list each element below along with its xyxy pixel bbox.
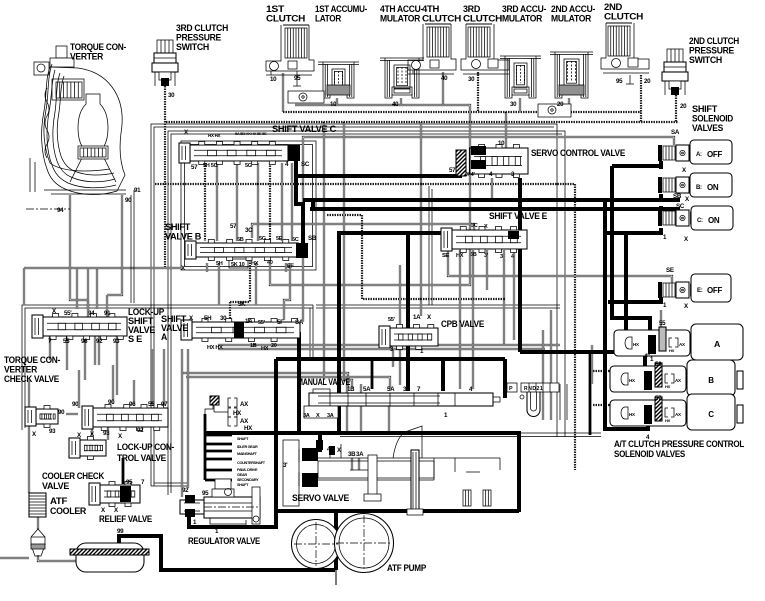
svg-text:HX: HX (251, 261, 259, 267)
wire y105 manifold (295, 105, 470, 112)
spool SHIFT VALVE E (452, 230, 527, 249)
box A OFF (690, 140, 732, 164)
wire 2nd press switch drop (675, 95, 677, 122)
svg-text:TROL VALVE: TROL VALVE (117, 453, 166, 463)
svg-text:AX: AX (675, 412, 681, 417)
wire 3rd press switch drop (164, 86, 166, 268)
wire servo ctl 10 drop (505, 112, 507, 148)
spool SHIFT VALVE C (190, 145, 288, 161)
svg-text:VALVE: VALVE (42, 481, 69, 491)
box E OFF (691, 274, 731, 302)
wire thick SC vertical (296, 155, 303, 246)
wire manual 5A feed (186, 377, 390, 389)
svg-text:4TH: 4TH (422, 4, 439, 14)
svg-text:SC: SC (301, 161, 310, 168)
linear solenoid row C (610, 400, 686, 426)
svg-text:5K 10: 5K 10 (231, 262, 245, 268)
wire valve E 4 drop (513, 250, 515, 340)
svg-text:57: 57 (230, 223, 237, 230)
svg-text:ON: ON (707, 183, 719, 192)
wire thick y352 rowB (520, 352, 645, 366)
svg-text:96: 96 (81, 338, 88, 345)
svg-text:AX: AX (675, 378, 681, 383)
svg-text:SWITCH: SWITCH (176, 42, 209, 52)
svg-text:3B: 3B (470, 252, 477, 258)
svg-text:95: 95 (294, 75, 301, 82)
wire 3B3A inside servo (351, 458, 353, 470)
wire vB extra drops (206, 263, 208, 272)
svg-text:4": 4" (644, 353, 650, 360)
svg-text:OFF: OFF (707, 150, 723, 159)
svg-text:55': 55' (388, 317, 396, 323)
wire thick x626 (624, 233, 628, 352)
svg-text:55': 55' (258, 320, 266, 326)
solenoid valve SB (658, 177, 662, 193)
svg-text:SHIFT: SHIFT (692, 104, 718, 114)
svg-text:4": 4" (327, 446, 333, 453)
svg-text:MULATOR: MULATOR (551, 14, 592, 24)
detent P (507, 383, 517, 392)
pressure switch 2ND (667, 49, 683, 62)
svg-text:97: 97 (161, 401, 168, 408)
regulator valve (204, 497, 260, 518)
svg-text:55: 55 (148, 401, 155, 408)
wire thick jog y209-y204 (311, 202, 315, 209)
spool SHIFT VALVE A (192, 322, 300, 338)
svg-text:91: 91 (134, 187, 141, 194)
svg-text:SHAFT: SHAFT (237, 483, 249, 487)
accumulator 4TH (380, 57, 424, 59)
wire dashdot centerline (26, 208, 70, 210)
svg-text:HX: HX (456, 253, 464, 259)
svg-text:HX HX: HX HX (207, 345, 223, 351)
svg-text:A:: A: (696, 152, 702, 158)
wire 94/91 into lockup (87, 300, 89, 317)
spool SERVO CONTROL VALVE (470, 148, 528, 174)
wire 5H drop (218, 263, 220, 305)
wire thick pan 99 route (119, 536, 335, 570)
wire 2nd accum drop (568, 98, 570, 107)
svg-text:5K: 5K (238, 301, 246, 308)
wire thick y359 (276, 357, 505, 361)
svg-text:HX: HX (633, 342, 639, 347)
node black land valve A (234, 322, 244, 338)
wire hatch 5K line (249, 255, 251, 302)
svg-text:HX: HX (629, 412, 635, 417)
check valve assy near 2nd accum (538, 104, 571, 117)
check valve assy near 1st (288, 91, 324, 103)
spool CPB VALVE (390, 328, 438, 346)
spool SHIFT VALVE B (196, 243, 298, 257)
svg-text:1B: 1B (347, 386, 355, 393)
svg-text:30: 30 (220, 315, 227, 322)
svg-text:95: 95 (616, 78, 623, 85)
svg-text:94: 94 (88, 310, 95, 317)
svg-text:CLUTCH: CLUTCH (463, 14, 502, 24)
svg-text:90: 90 (72, 401, 79, 408)
svg-text:REGULATOR VALVE: REGULATOR VALVE (188, 536, 260, 546)
svg-text:X: X (484, 224, 488, 230)
wire gray pair bottom y433 (340, 432, 601, 434)
wire 2nd clutch 20 drop (640, 75, 642, 122)
wire frame-E around valve E (428, 186, 430, 305)
svg-text:30: 30 (510, 101, 517, 108)
wire frame-A bottom (151, 485, 189, 487)
node hatched plug servo ctl (456, 150, 466, 176)
svg-text:SOLENOID: SOLENOID (692, 114, 734, 124)
wire thick x520 servo3 (518, 178, 522, 352)
svg-text:HX: HX (629, 378, 635, 383)
svg-text:SB: SB (673, 193, 682, 200)
svg-text:3B: 3B (348, 451, 356, 458)
svg-text:4TH ACCU-: 4TH ACCU- (380, 4, 423, 14)
svg-text:40: 40 (267, 260, 273, 266)
svg-text:S E: S E (128, 334, 142, 344)
svg-text:96: 96 (129, 401, 136, 408)
svg-text:X 4': X 4' (466, 172, 475, 178)
svg-text:92: 92 (137, 427, 144, 434)
svg-text:94: 94 (57, 207, 64, 214)
svg-text:3A: 3A (327, 413, 334, 419)
svg-text:C:: C: (697, 218, 703, 224)
svg-text:HX HX: HX HX (208, 133, 221, 138)
wire thick SC-servo y176 (294, 174, 462, 178)
wire frame-D (22, 305, 313, 430)
svg-text:MULATOR: MULATOR (380, 14, 421, 24)
svg-text:2ND CLUTCH: 2ND CLUTCH (689, 36, 739, 46)
svg-text:SB: SB (308, 235, 317, 242)
wire screened frame right x575 (574, 184, 576, 470)
svg-text:10: 10 (330, 101, 337, 108)
svg-text:PRESSURE: PRESSURE (176, 33, 221, 43)
svg-text:OFF: OFF (707, 286, 723, 295)
svg-text:SOLENOID VALVES: SOLENOID VALVES (614, 449, 685, 459)
wire x131 frame (130, 195, 132, 303)
svg-text:20: 20 (557, 101, 564, 108)
wire pair y305 (316, 304, 560, 306)
svg-text:CLUTCH: CLUTCH (266, 14, 305, 24)
wire left h y268 (24, 267, 181, 269)
solenoid valve SE (658, 282, 662, 298)
svg-text:91: 91 (104, 310, 111, 317)
wire screened frame top y184 (155, 183, 575, 185)
wire regulator feeds (181, 349, 183, 497)
node SB black land (296, 243, 308, 258)
svg-text:1ST: 1ST (266, 4, 285, 14)
svg-text:CHECK VALVE: CHECK VALVE (4, 374, 59, 384)
atf pan (76, 543, 144, 572)
wire spool bundle C-B (216, 163, 218, 241)
wire thick SB bus y200 (303, 198, 680, 202)
svg-text:A/T CLUTCH PRESSURE CONTROL: A/T CLUTCH PRESSURE CONTROL (614, 439, 745, 449)
svg-text:1A: 1A (413, 314, 421, 321)
wire thick x320 servo stub (318, 433, 322, 452)
pump centerlines (315, 522, 317, 566)
wire thick valve E 3 line (339, 233, 509, 433)
servo valve blacks (302, 448, 318, 461)
svg-text:SHIFT VALVE C: SHIFT VALVE C (272, 124, 337, 134)
svg-text:SHIFT: SHIFT (165, 222, 191, 232)
svg-text:3: 3 (500, 254, 503, 260)
svg-text:2ND ACCU-: 2ND ACCU- (551, 4, 595, 14)
svg-text:30: 30 (468, 76, 475, 83)
solenoid valve SA (658, 145, 662, 161)
wire SE line (448, 250, 672, 283)
wire CPB 3 drop (392, 350, 394, 367)
box C ON (691, 206, 733, 230)
wire thick relief feed (122, 458, 125, 484)
detent U-tube (527, 392, 540, 417)
wire tc check links (28, 426, 30, 493)
wire frame-C (181, 141, 316, 270)
svg-text:HX: HX (665, 418, 671, 423)
wire 1st accum drop (336, 98, 338, 105)
wire 95 stub 2nd (629, 75, 631, 84)
wire thick solB stub (659, 194, 663, 201)
wire 1A riser x421 (420, 122, 422, 316)
svg-text:HX: HX (665, 384, 671, 389)
svg-text:3A: 3A (356, 451, 364, 458)
wire 4th accum drop (400, 98, 402, 105)
wire pump divider tail (335, 570, 337, 585)
svg-text:20: 20 (680, 103, 687, 110)
svg-text:IDLER GEAR: IDLER GEAR (237, 445, 258, 449)
svg-text:5E: 5E (276, 236, 283, 242)
svg-text:SA: SA (671, 129, 680, 136)
node shaft lube list (204, 414, 207, 480)
svg-text:3A: 3A (303, 413, 310, 419)
svg-text:RELIEF VALVE: RELIEF VALVE (99, 514, 152, 524)
svg-text:CLUTCH: CLUTCH (604, 12, 643, 22)
wire thick regulator box (189, 359, 276, 527)
svg-text:5G: 5G (259, 236, 266, 242)
svg-text:93: 93 (103, 430, 110, 437)
wire 40 line (270, 112, 470, 285)
wire 1st clutch 10 drop (282, 73, 284, 112)
svg-text:COUNTERSHAFT: COUNTERSHAFT (237, 461, 266, 465)
svg-text:56: 56 (655, 361, 662, 368)
svg-text:R N D 2 1: R N D 2 1 (524, 386, 543, 392)
svg-text:A: A (714, 340, 721, 349)
check valve lock-up timing (80, 440, 106, 456)
svg-text:SA: SA (295, 319, 304, 326)
svg-text:5H: 5H (216, 261, 223, 267)
svg-text:CLUTCH: CLUTCH (422, 14, 461, 24)
wire 56 screened (593, 370, 656, 372)
wire 3C line (252, 224, 474, 238)
wire thick x590 (589, 352, 592, 435)
regulator blacks (185, 495, 195, 503)
svg-text:5G: 5G (245, 163, 252, 169)
svg-text:AX: AX (679, 342, 685, 347)
svg-text:HX: HX (233, 410, 242, 417)
wire HX drop (255, 263, 257, 305)
svg-text:1B: 1B (250, 343, 257, 349)
wire valve E drops (459, 250, 461, 389)
wire bus1 y112 screened (283, 111, 641, 113)
wire thick V1 x605 (605, 200, 648, 429)
wire hatch L y215-x362-y299 (327, 215, 505, 299)
svg-text:90: 90 (108, 399, 115, 406)
wire riser x324 (323, 122, 325, 380)
svg-text:B: B (708, 376, 714, 385)
wire thick x372 manual (371, 359, 374, 389)
wire luc drops (49, 335, 51, 360)
svg-text:90: 90 (125, 197, 132, 204)
linear solenoid row A (614, 330, 690, 356)
svg-text:CPB VALVE: CPB VALVE (441, 319, 484, 329)
svg-text:93: 93 (49, 428, 56, 435)
svg-text:E:: E: (697, 288, 703, 294)
svg-text:MAINSHAFT: MAINSHAFT (237, 452, 258, 456)
wire 3rd accum drop (519, 98, 521, 112)
svg-text:90: 90 (58, 409, 65, 416)
pressure switch 3RD (157, 40, 173, 53)
wire servo drops (346, 384, 348, 433)
svg-text:92: 92 (96, 338, 103, 345)
node SC black land (288, 145, 300, 161)
wire 95 stub 1st (296, 71, 298, 86)
svg-text:10: 10 (270, 76, 277, 83)
svg-text:MULATOR: MULATOR (502, 14, 543, 24)
svg-text:LATOR: LATOR (315, 14, 342, 24)
svg-text:LOCK-UP CON-: LOCK-UP CON- (117, 442, 174, 452)
box B ON (690, 173, 732, 197)
svg-text:3RD: 3RD (463, 4, 481, 14)
wire servo ctl 4 drop (491, 178, 493, 200)
wire SA line (303, 137, 674, 322)
detent RND21 (521, 383, 559, 392)
svg-text:B:: B: (696, 185, 702, 191)
svg-text:1A: 1A (245, 318, 253, 325)
svg-text:93: 93 (113, 338, 120, 345)
relief valve (100, 485, 140, 503)
wire thick solC link (607, 228, 661, 233)
node black lands servo ctl (471, 146, 486, 155)
wire verticals right of manual (542, 330, 544, 420)
svg-text:30: 30 (168, 92, 175, 99)
svg-text:5F: 5F (287, 263, 294, 270)
wire 55 stub rowA (660, 310, 662, 328)
svg-text:10: 10 (498, 140, 505, 147)
wire thick solA stub (612, 164, 661, 168)
wire x400 riser (399, 265, 401, 385)
clutch 4TH (427, 27, 449, 57)
svg-text:SERVO VALVE: SERVO VALVE (292, 493, 349, 503)
svg-text:TORQUE CON-: TORQUE CON- (4, 355, 60, 365)
svg-text:3C: 3C (245, 227, 253, 234)
svg-text:5F: 5F (277, 319, 284, 326)
wire x97 drop (96, 268, 98, 309)
svg-text:A: A (161, 332, 168, 342)
wire screened bus2 y122 (166, 121, 678, 123)
svg-text:SECONDARY: SECONDARY (237, 478, 259, 482)
svg-text:20: 20 (644, 78, 651, 85)
box 5K10 (229, 259, 248, 268)
svg-text:VALVE B: VALVE B (165, 232, 202, 242)
pin AX HX brackets (228, 398, 237, 407)
spool LOCK-UP SHIFT VALVE (43, 317, 127, 336)
spool MANUAL VALVE (309, 393, 493, 406)
manual valve lower ports (304, 406, 338, 418)
svg-text:3C: 3C (471, 223, 478, 229)
wire 3rd clutch drop (477, 72, 479, 112)
svg-text:TORQUE CON-: TORQUE CON- (70, 42, 126, 52)
svg-text:57: 57 (449, 167, 456, 174)
wire thick x443 manual4 (441, 359, 445, 391)
wire 57 screened (593, 404, 656, 406)
atf strainer funnel (31, 537, 45, 556)
svg-text:X: X (316, 413, 320, 419)
svg-text:VERTER: VERTER (70, 52, 104, 62)
wire thick solE link (608, 297, 661, 302)
wire thick V2 x612 (612, 166, 650, 331)
pump large circle (335, 514, 394, 573)
solenoid valve SC (658, 210, 662, 226)
wire x95 from 94 port (94, 336, 96, 365)
svg-text:MANUAL VALVE: MANUAL VALVE (297, 377, 350, 387)
svg-text:40: 40 (392, 101, 399, 108)
wire x77 x88 drops (76, 268, 78, 309)
wire timing valve feeds (91, 427, 93, 440)
spool LOCK-UP CONTROL VALVE (93, 408, 168, 427)
svg-text:SHAFT: SHAFT (237, 437, 249, 441)
svg-text:SE: SE (442, 253, 449, 259)
check valve TORQUE CONVERTER (36, 409, 58, 424)
svg-text:SE: SE (666, 267, 674, 274)
svg-text:57: 57 (655, 395, 662, 402)
wire thick x299 (297, 332, 301, 433)
wire manual 1B feed (182, 373, 348, 389)
svg-text:5A: 5A (387, 386, 395, 393)
clutch 3RD (468, 27, 490, 57)
svg-text:AX: AX (240, 401, 249, 408)
svg-text:PAWL DRIVE: PAWL DRIVE (237, 468, 258, 472)
svg-text:HX: HX (244, 425, 253, 432)
wire tc pipes down (70, 195, 88, 300)
svg-text:40: 40 (441, 75, 448, 82)
accumulator 2ND (550, 51, 593, 53)
wire thick servo box (205, 431, 519, 435)
wire valve E 3 drop (503, 250, 505, 345)
svg-text:GEAR: GEAR (237, 473, 247, 477)
svg-text:SHIFT VALVE E: SHIFT VALVE E (489, 211, 547, 221)
clutch 2ND (608, 26, 630, 56)
wire tc bottom (51, 193, 126, 195)
svg-text:SC: SC (676, 203, 685, 210)
svg-text:55: 55 (659, 320, 666, 327)
svg-text:3RD CLUTCH: 3RD CLUTCH (176, 23, 228, 33)
torque converter body (56, 46, 67, 58)
wire 5F line (284, 263, 290, 320)
svg-text:5B: 5B (237, 237, 244, 243)
svg-text:5H: 5H (204, 315, 212, 322)
wire bracket feeds (213, 405, 215, 412)
wire gray bundle y345 (218, 344, 560, 346)
svg-text:COOLER CHECK: COOLER CHECK (42, 471, 105, 481)
clutch 1ST (285, 28, 307, 58)
svg-text:95: 95 (202, 490, 209, 497)
svg-text:COOLER: COOLER (50, 506, 87, 516)
svg-text:3RD ACCU-: 3RD ACCU- (502, 4, 546, 14)
svg-text:PRESSURE: PRESSURE (689, 46, 734, 56)
svg-text:ATF PUMP: ATF PUMP (387, 563, 426, 573)
wire frame-A (151, 124, 557, 486)
svg-text:5A: 5A (363, 386, 371, 393)
wire thick x505 down (503, 359, 507, 398)
linear solenoid row B (610, 366, 686, 392)
wire cooler links (37, 517, 39, 529)
